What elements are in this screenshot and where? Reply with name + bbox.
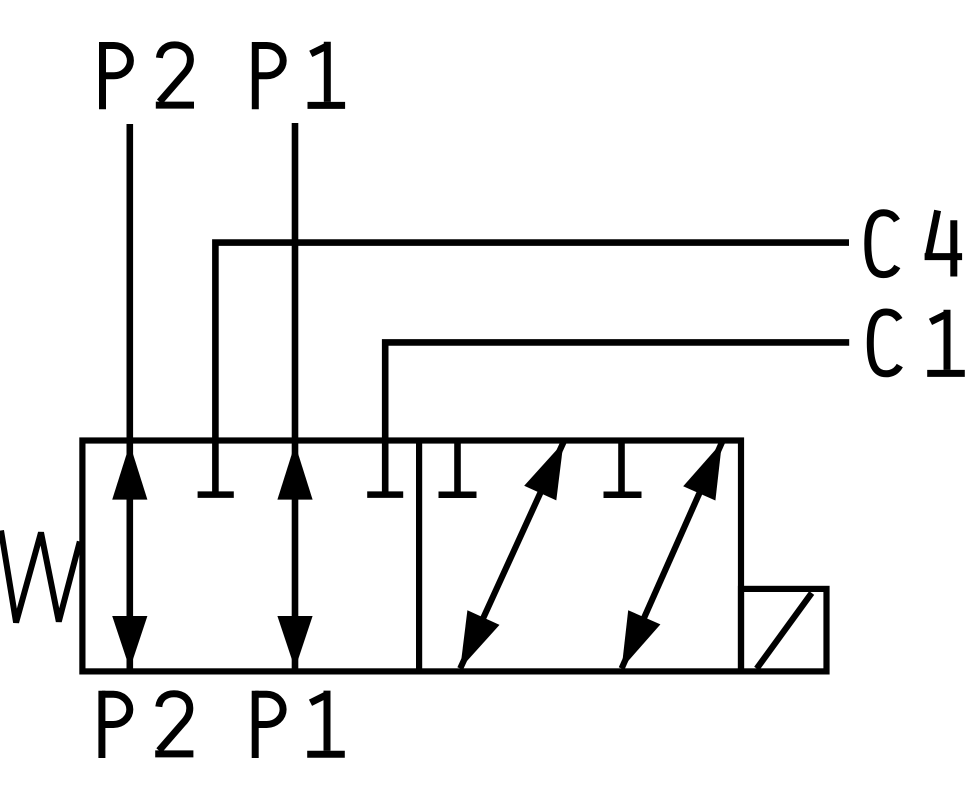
label P1 top xyxy=(255,42,345,109)
solenoid box xyxy=(741,589,827,672)
label P1 bottom xyxy=(255,691,345,758)
blocked port bar (pos2 right) xyxy=(604,492,642,499)
spring W xyxy=(1,531,80,623)
crossover arrow A (pos2) xyxy=(460,442,563,668)
label C4 xyxy=(868,210,962,276)
label P2 top xyxy=(103,42,195,109)
blocked port bar C1 xyxy=(367,491,403,498)
arrowhead P1 down xyxy=(277,616,312,669)
label C1 xyxy=(870,310,965,374)
port P1 line xyxy=(292,123,299,669)
crossover arrow B (pos2) xyxy=(622,442,722,668)
arrowhead P1 up xyxy=(277,444,312,500)
solenoid diagonal xyxy=(757,593,812,669)
valve body outline xyxy=(82,441,741,672)
blocked port bar C4 xyxy=(198,491,234,498)
port P2 line xyxy=(127,124,134,669)
label P2 bottom xyxy=(102,691,193,758)
C1 line xyxy=(385,342,849,491)
blocked port stem (pos2 left) xyxy=(454,441,461,492)
C4 line xyxy=(215,243,849,492)
flow arrow P2 (pos1) shaft drawn above; arrowheads xyxy=(112,444,312,669)
valve position divider xyxy=(416,441,422,672)
blocked port stem (pos2 right) xyxy=(618,441,625,492)
arrowhead P2 up xyxy=(112,444,147,500)
arrowhead P2 down xyxy=(112,616,147,669)
blocked port bar (pos2 left) xyxy=(439,492,477,499)
